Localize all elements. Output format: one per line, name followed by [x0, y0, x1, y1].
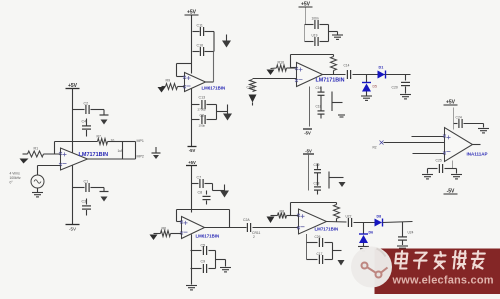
wire down — [103, 110, 105, 116]
svg-text:C19: C19 — [314, 163, 320, 167]
diode CR10 arrow — [249, 95, 257, 103]
wire to C17 — [307, 259, 318, 261]
ground U24 — [397, 246, 408, 250]
wire V- pin U5 — [306, 234, 308, 260]
op-amp U5 — [299, 209, 327, 234]
wire to C13 — [192, 104, 200, 106]
wire U24 stub — [402, 222, 404, 237]
wire noninverting U3 to CR10 — [253, 78, 297, 80]
wire after D8 — [383, 222, 413, 223]
power bar -5V U5 — [303, 153, 314, 155]
wire U6 input 3 — [413, 153, 445, 155]
wire bracket stub U5 — [329, 177, 344, 179]
power +5V U2 — [185, 10, 199, 16]
wire — [333, 71, 335, 75]
svg-text:2: 2 — [253, 235, 255, 239]
wire — [336, 203, 338, 205]
capacitor C18 — [318, 111, 325, 114]
wire +5V to C24 — [453, 108, 455, 124]
watermark logo traces — [362, 249, 388, 278]
ground C25 right — [451, 175, 462, 179]
wire D6 stub — [363, 223, 365, 235]
capacitor C26 — [319, 238, 322, 247]
input arrow U4 — [150, 235, 158, 241]
wire V- rail U2 — [191, 89, 193, 147]
wire D5 stub — [366, 75, 368, 83]
svg-text:+5V: +5V — [68, 83, 78, 89]
wire feedback left — [54, 142, 56, 155]
wire output node — [353, 74, 406, 76]
power -5V left — [66, 224, 80, 226]
ground arrow C2 — [101, 120, 108, 125]
capacitor U19 — [315, 37, 318, 46]
ground U3 top — [332, 35, 343, 39]
wire C8 lower — [206, 201, 208, 205]
wire to C2 — [73, 109, 85, 111]
wire feedback left U5 — [290, 203, 292, 216]
wire R8 to input — [287, 215, 299, 217]
ground arrow R8 — [267, 217, 275, 224]
wire C20 down — [405, 87, 407, 94]
wire V+ rail U2 — [191, 16, 193, 74]
capacitor C15 — [315, 20, 318, 29]
svg-text:100n: 100n — [312, 17, 319, 21]
wire V+ pin U6 — [453, 124, 455, 130]
wire arrow to R10 — [271, 67, 277, 70]
svg-text:C18: C18 — [314, 182, 320, 186]
svg-text:D1: D1 — [379, 66, 384, 70]
svg-text:LM6171BIN: LM6171BIN — [196, 234, 220, 239]
svg-text:INA111AP: INA111AP — [467, 152, 488, 157]
ground arrow U2 bottom — [223, 114, 232, 121]
resistor R1 — [28, 151, 44, 157]
svg-text:C26: C26 — [315, 235, 321, 239]
wire V+ rail U4 — [191, 166, 193, 213]
capacitor C2A — [247, 223, 250, 232]
wire C11 left — [193, 31, 200, 33]
capacitor C14 — [347, 70, 350, 79]
wire — [287, 67, 297, 69]
wire C1 right — [91, 187, 105, 189]
power +5V U6 — [444, 100, 458, 106]
svg-text:C20: C20 — [392, 86, 398, 90]
svg-text:C2A: C2A — [243, 218, 250, 222]
ground bar MP — [152, 152, 161, 154]
wire to inverting U3 — [291, 67, 297, 69]
capacitor C11 — [200, 27, 203, 36]
svg-text:C4: C4 — [82, 120, 87, 124]
ground C25 left — [422, 175, 433, 179]
power bar -5V U3 — [303, 128, 312, 130]
svg-text:R7: R7 — [97, 135, 101, 139]
ground D6 — [358, 247, 369, 251]
ground arrow MP — [153, 155, 159, 159]
svg-text:www.elecfans.com: www.elecfans.com — [392, 275, 494, 287]
wire C3 lower stub — [86, 210, 88, 216]
wire feedback top U5 — [291, 202, 337, 204]
capacitor C19 — [314, 170, 321, 173]
capacitor C17 — [319, 255, 322, 264]
wire ground stem U4 — [224, 185, 226, 191]
svg-text:C6: C6 — [200, 114, 205, 118]
wire ground stub U2 — [226, 35, 228, 41]
power bar +5V U4 — [186, 165, 197, 167]
wire to C26 — [307, 242, 318, 244]
wire R1 to inverting input — [44, 153, 61, 155]
svg-text:-5V: -5V — [305, 149, 312, 154]
wire to ground U5 low — [333, 250, 342, 252]
wire cap box right U3 — [328, 25, 330, 42]
capacitor C20 — [401, 82, 410, 85]
wire C10 left — [193, 51, 200, 53]
wire C9 right — [209, 268, 216, 270]
wire arrow to R8 — [271, 215, 278, 217]
capacitor C2a — [86, 105, 89, 114]
wire to ground — [216, 259, 226, 261]
svg-text:D6: D6 — [369, 231, 374, 235]
power +5V rail left — [66, 83, 80, 89]
wire feedback left U4 — [176, 210, 178, 222]
svg-text:R2: R2 — [373, 146, 377, 150]
wire — [333, 55, 335, 57]
wire D5 to ground — [366, 92, 368, 96]
ground C24 — [478, 129, 489, 133]
svg-text:C7: C7 — [197, 176, 202, 180]
wire ground stub MP — [155, 147, 157, 153]
wire V- rail U1 — [72, 166, 74, 225]
wire U6 output — [473, 144, 481, 146]
wire U24 down — [402, 241, 404, 246]
wire C5 right — [209, 250, 216, 252]
wire feedback right — [108, 141, 123, 143]
wire stub — [103, 188, 105, 192]
wire feedback top — [55, 141, 98, 143]
resistor R7 feedback — [98, 139, 108, 145]
svg-text:MP2: MP2 — [137, 155, 144, 159]
svg-text:U19: U19 — [312, 34, 318, 38]
resistor R11 feedback — [331, 57, 337, 71]
svg-text:MP1: MP1 — [137, 139, 144, 143]
wire rail U5 top — [308, 154, 310, 191]
diode D6 — [359, 234, 368, 243]
svg-text:C24: C24 — [456, 116, 462, 120]
resistor R8 — [278, 213, 287, 219]
wire +5V stub U3 — [305, 8, 307, 25]
wire C3 stub — [86, 199, 88, 205]
svg-text:-5V: -5V — [69, 227, 77, 232]
wire CR10 bottom — [252, 103, 254, 106]
op-amp U1 — [61, 148, 88, 170]
wire stub left — [427, 169, 429, 174]
wire to + input — [38, 165, 61, 167]
wire C6 right — [207, 119, 217, 121]
wire feedback right U4 — [229, 210, 231, 228]
wire MP bracket — [135, 142, 137, 160]
svg-text:U24: U24 — [408, 231, 414, 235]
wire ground stem — [227, 105, 229, 114]
diode D1 — [378, 71, 386, 79]
input arrow U3 — [267, 70, 275, 76]
wire to ground U4 — [213, 190, 225, 192]
svg-text:C10: C10 — [197, 44, 204, 48]
power +5V U3 — [299, 2, 313, 8]
wire V1 to noninverting — [37, 166, 39, 176]
wire C18 lower stub — [317, 190, 319, 194]
wire C10 right — [205, 51, 215, 53]
wire to ground U2 — [217, 111, 228, 113]
wire C19 to C18 — [317, 173, 319, 186]
capacitor C18b — [314, 187, 321, 190]
capacitor C1 — [86, 183, 89, 192]
wire to MP1 stub — [123, 141, 136, 143]
ground D5 — [361, 96, 372, 100]
svg-text:C2: C2 — [84, 102, 89, 106]
wire stub — [483, 124, 485, 128]
wire C18 lower stub — [320, 114, 322, 118]
wire output to feedback — [213, 52, 215, 83]
ground U4 — [186, 286, 197, 290]
capacitor C4a — [82, 126, 91, 129]
wire to C1 — [73, 187, 85, 189]
power -5V U6 — [444, 189, 458, 195]
wire V+ rail U1 — [72, 89, 74, 153]
wire cap bracket U5 low — [332, 243, 334, 260]
capacitor U24 — [398, 237, 407, 240]
op-amp U3 — [297, 63, 323, 87]
wire stub — [337, 32, 339, 35]
input arrow — [20, 159, 29, 164]
wire C2 to ground — [91, 109, 105, 111]
svg-text:U22: U22 — [346, 215, 352, 219]
svg-text:C5: C5 — [201, 244, 206, 248]
wire — [336, 219, 338, 222]
svg-text:100kHz: 100kHz — [10, 176, 22, 180]
wire feedback top U4 — [177, 209, 230, 211]
wire V1 to ground — [37, 188, 39, 193]
wire to C9 — [191, 268, 202, 270]
wire U6 input 2 — [384, 142, 445, 144]
resistor R12 feedback — [334, 205, 340, 219]
wire U1 output — [88, 158, 136, 160]
svg-text:C13: C13 — [199, 96, 206, 100]
wire C8 stub — [206, 191, 208, 195]
svg-text:-5V: -5V — [304, 131, 311, 136]
svg-text:C1: C1 — [84, 180, 89, 184]
svg-text:+5V: +5V — [188, 160, 196, 165]
wire C4 lower stub — [86, 130, 88, 137]
svg-text:C9: C9 — [201, 260, 206, 264]
input arrow U2 — [158, 87, 166, 93]
wire arrow to R6 — [154, 233, 161, 235]
wire cap box right — [213, 32, 215, 52]
svg-text:2700p: 2700p — [198, 108, 207, 112]
wire to C5 — [191, 250, 202, 252]
wire C25 right — [445, 168, 457, 170]
watermark text elecfans hanzi — [395, 251, 485, 269]
wire stub right — [456, 169, 458, 174]
wire C24 right — [464, 123, 484, 125]
wire C11 right — [205, 31, 215, 33]
svg-text:LM7171BIN: LM7171BIN — [315, 227, 339, 232]
svg-text:C25: C25 — [436, 159, 442, 163]
op-amp U6 — [445, 128, 473, 162]
wire C16 stub — [320, 87, 322, 93]
ground arrow U2 top — [222, 41, 231, 48]
wire R9 to input — [178, 86, 185, 88]
capacitor C25 — [439, 164, 442, 173]
wire cap bracket U5 — [328, 172, 330, 189]
wire C19 stub — [317, 164, 319, 169]
wire C7 right — [205, 183, 213, 185]
wire to inverting U2 — [177, 76, 185, 78]
wire feedback top U3 — [291, 54, 334, 56]
wire D6 to ground — [363, 243, 365, 246]
capacitor C3 — [82, 206, 91, 209]
svg-text:-5V: -5V — [189, 148, 196, 153]
svg-text:1uF: 1uF — [118, 149, 124, 153]
capacitor C5 — [203, 246, 206, 255]
wire to C7 — [192, 183, 199, 185]
source V1 — [31, 175, 44, 188]
wire cap bracket U4 — [215, 251, 217, 269]
watermark logo disc — [351, 247, 392, 288]
ground arrow U5 decoup — [339, 182, 346, 187]
svg-text:LM6171BIN: LM6171BIN — [202, 86, 226, 91]
wire C4 stub — [86, 119, 88, 126]
wire U2 output — [206, 81, 214, 83]
wire U19 left — [305, 41, 314, 43]
wire C24 left — [454, 123, 458, 125]
svg-text:R9: R9 — [166, 79, 171, 83]
wire to C6 — [192, 119, 200, 121]
ground V1 — [32, 193, 43, 197]
wire feedback left U2 — [176, 64, 178, 77]
op-amp U4 — [182, 217, 205, 239]
svg-text:C8: C8 — [198, 191, 203, 195]
op-amp U2 — [185, 73, 206, 92]
wire to U5 noninverting input — [253, 227, 299, 229]
power bar -5V U2 — [188, 146, 197, 148]
capacitor C24 — [459, 119, 462, 128]
wire V- pin U6 — [452, 161, 454, 169]
wire after D1 — [386, 74, 411, 76]
svg-text:D5: D5 — [373, 85, 377, 89]
ground U3 bottom — [338, 115, 345, 117]
capacitor C6 — [202, 115, 205, 124]
svg-text:C14: C14 — [344, 64, 350, 68]
capacitor C10 — [200, 47, 203, 56]
diode D8 — [375, 219, 383, 227]
ground bar C1 — [100, 191, 109, 193]
svg-text:C11: C11 — [197, 24, 203, 28]
wire C16 to C18 — [320, 96, 322, 111]
wire C15 left — [305, 24, 314, 26]
capacitor C9 — [203, 264, 206, 273]
ground C20 — [400, 95, 411, 99]
svg-text:C18: C18 — [316, 105, 322, 109]
diode D5 — [362, 83, 371, 92]
svg-text:4 Vrms: 4 Vrms — [10, 172, 21, 176]
capacitor C8 — [203, 196, 211, 199]
wire C26 right — [325, 242, 333, 244]
wire bracket stub U3 — [332, 102, 343, 104]
wire ground stem — [225, 260, 227, 267]
wire C20 stub — [405, 75, 407, 81]
wire U4 output — [205, 227, 247, 229]
wire V- rail U4 — [191, 235, 193, 285]
wire U6 input 1 — [412, 136, 445, 138]
wire feedback down — [122, 142, 124, 160]
svg-text:LM7171BIN: LM7171BIN — [316, 78, 345, 84]
ground arrow U5 low — [338, 260, 345, 266]
wire U5 output — [327, 221, 347, 224]
wire arrow to R9 — [162, 86, 166, 88]
wire V- rail U3 — [309, 87, 311, 127]
wire C17 right — [325, 259, 333, 261]
wire C13 right — [207, 104, 217, 106]
svg-text:C17: C17 — [317, 252, 323, 256]
wire to D8 — [354, 222, 375, 224]
resistor R6 — [161, 231, 171, 237]
capacitor C7 — [200, 179, 203, 188]
ground arrow U4 top — [220, 191, 229, 198]
wire C15 right — [320, 24, 329, 26]
wire U3 output — [323, 74, 346, 76]
resistor CR10 body — [250, 80, 256, 92]
wire feedback top U2 — [177, 63, 192, 65]
resistor R9 — [166, 84, 178, 90]
node mark input2 — [380, 141, 384, 145]
capacitor C16 — [318, 92, 325, 95]
wire to inverting U4 — [177, 221, 182, 223]
ground U4 caps — [220, 268, 231, 272]
wire bracket — [212, 184, 214, 191]
ground bar C2 — [100, 114, 109, 116]
capacitor C13 — [202, 100, 205, 109]
resistor R10 — [277, 65, 287, 71]
wire to ground U3 top — [329, 31, 338, 33]
wire C25 left — [428, 168, 438, 170]
svg-text:D8: D8 — [377, 215, 382, 219]
wire feedback left U3 — [290, 55, 292, 68]
wire cap bracket — [216, 105, 218, 120]
svg-text:R6: R6 — [162, 227, 167, 231]
wire input — [23, 153, 28, 155]
ground arrow C1 — [101, 197, 108, 202]
wire U19 right — [320, 41, 329, 43]
svg-text:LM7171BIN: LM7171BIN — [79, 152, 109, 158]
watermark red box — [375, 249, 500, 295]
svg-text:C3: C3 — [82, 200, 87, 204]
wire cap bracket U3 — [331, 92, 333, 112]
wire R6 to input — [171, 233, 182, 235]
svg-text:100p: 100p — [199, 124, 206, 128]
wire cap box left U3 — [304, 25, 306, 42]
capacitor U22 — [348, 218, 351, 227]
